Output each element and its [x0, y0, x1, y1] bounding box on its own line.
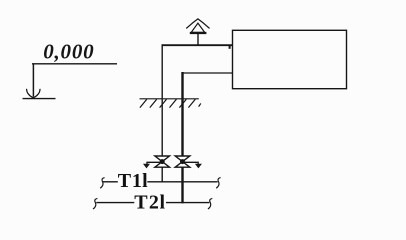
pipe T1 riser lower segment [161, 167, 163, 182]
vent triangle [191, 23, 205, 32]
ground line [140, 98, 199, 100]
pipe T1 riser (thin vertical) upper segment [161, 44, 163, 156]
elevation leader line [32, 63, 117, 65]
vent stem [197, 33, 199, 45]
vent chevron arc [186, 19, 209, 29]
elevation arrowhead [27, 89, 40, 98]
ground hatch strokes [140, 99, 201, 107]
dimension line T1 break mark right [216, 178, 220, 189]
pipe T2 riser lower segment [181, 167, 183, 203]
dimension line T2 left segment [96, 202, 134, 204]
pipe T2 riser (thick vertical) upper segment [181, 72, 183, 156]
equipment box [233, 30, 347, 88]
weld nub on pipe T1 [229, 45, 231, 49]
svg-text:T2l: T2l [134, 191, 165, 212]
svg-text:T1l: T1l [118, 170, 148, 192]
elevation arrow stem [32, 64, 34, 97]
vent triangle base bar [190, 32, 207, 34]
dimension line T1 left segment [103, 181, 118, 183]
dimension line T2 break mark right [208, 198, 212, 209]
dimension line T1 right segment [147, 181, 217, 183]
pipe T2 horizontal (to box) [182, 72, 233, 74]
dimension line T2 right segment [166, 202, 209, 204]
dimension line T2 break mark left [93, 198, 97, 209]
valve V2 center dot [180, 159, 185, 164]
valve V2 (right) body [175, 156, 190, 167]
valve V1 center dot [160, 159, 165, 164]
elevation label 0,000 [43, 39, 94, 63]
valve V1 drain arrow [143, 162, 162, 168]
label T1 [118, 170, 148, 192]
valve V1 (left) body [155, 156, 170, 167]
valve V2 drain arrow [183, 162, 202, 168]
elevation datum base line [23, 98, 56, 100]
dimension line T1 break mark left [100, 178, 104, 189]
label T2 [134, 191, 165, 213]
pipe T1 horizontal (to box) [162, 44, 233, 46]
svg-text:0,000: 0,000 [43, 39, 94, 63]
